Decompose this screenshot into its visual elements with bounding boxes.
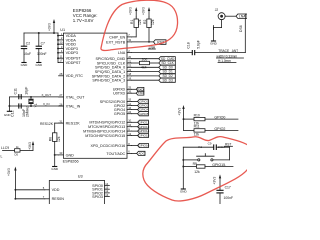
wire RXD — [132, 88, 137, 90]
svg-text:10uF: 10uF — [23, 52, 31, 56]
svg-text:VDD_RTC: VDD_RTC — [66, 74, 84, 78]
wire VDD pin branch — [57, 35, 60, 37]
svg-text:C2: C2 — [26, 41, 30, 45]
wire SD_D1 — [132, 71, 159, 73]
node GPIO14 flag — [138, 129, 149, 133]
svg-text:GPIO14: GPIO14 — [138, 129, 149, 133]
wire GPIO13 — [132, 126, 138, 128]
wire GPIO16 — [132, 145, 138, 147]
resistor R10 12k — [194, 117, 205, 120]
svg-text:RES12K: RES12K — [66, 121, 81, 125]
svg-text:+3V3: +3V3 — [213, 177, 217, 185]
wire ADC — [132, 152, 137, 154]
svg-text:GPIO5: GPIO5 — [114, 112, 125, 116]
wire reset group left rail — [182, 147, 184, 189]
svg-text:GND: GND — [66, 153, 75, 157]
svg-text:GPIO15.: GPIO15. — [212, 163, 226, 167]
svg-text:21: 21 — [128, 59, 131, 63]
svg-text:33: 33 — [59, 151, 62, 155]
svg-text:X_IN: X_IN — [43, 102, 49, 106]
svg-text:MTMS/HSPICLK/GPIO14: MTMS/HSPICLK/GPIO14 — [83, 129, 125, 133]
wire SD_CMD — [132, 58, 159, 60]
svg-text:GND: GND — [51, 167, 59, 171]
pin 21 SPICLK/SD_CLK (right) — [127, 62, 132, 64]
svg-text:14: 14 — [128, 102, 131, 106]
svg-text:RES0N: RES0N — [52, 197, 65, 201]
svg-text:+3V3: +3V3 — [7, 168, 11, 176]
wire RES12K net — [55, 122, 59, 124]
wire X_IN — [9, 105, 63, 107]
svg-text:R6: R6 — [48, 137, 52, 141]
svg-text:4k4: 4k4 — [141, 66, 147, 70]
svg-text:LLC9: LLC9 — [1, 146, 9, 150]
capacitor C12 10pF — [18, 103, 20, 108]
pin 14 SPIO0 U3 right — [105, 185, 110, 187]
pin 3 VDDP3 (left) — [59, 48, 64, 50]
wire EXT_RSTB to RST flag — [132, 41, 154, 43]
svg-text:12: 12 — [128, 123, 131, 127]
svg-text:GND: GND — [21, 63, 29, 67]
svg-text:EXT_RSTB: EXT_RSTB — [106, 40, 126, 44]
pin 26 U0TXD (right) — [127, 92, 132, 94]
pin 7 RES0N U3 left — [45, 198, 50, 200]
svg-text:C9: C9 — [208, 142, 212, 146]
capacitor C9 100nF reset — [183, 146, 213, 148]
resistor R1 12k pull-up — [135, 17, 137, 19]
pin 32 EXT_RSTB (right) — [127, 41, 132, 43]
svg-text:31: 31 — [59, 119, 62, 123]
pin 15 SPICS2/GPIO0 (right) — [127, 100, 132, 102]
svg-text:R9: R9 — [193, 162, 197, 166]
svg-text:18: 18 — [128, 72, 131, 76]
node GPIO2 flag — [138, 103, 149, 107]
wire GPIO15 — [132, 135, 138, 137]
svg-text:5.6pF: 5.6pF — [196, 40, 200, 49]
wire SD_D2 — [132, 75, 159, 77]
pin 14 GPIO2 (right) — [127, 105, 132, 107]
wire GPIO12 — [132, 121, 138, 123]
wire GPIO2 — [132, 105, 138, 107]
svg-text:1.7V~3.6V: 1.7V~3.6V — [73, 18, 94, 23]
node GPIO16 flag — [138, 143, 149, 147]
svg-text:15: 15 — [128, 98, 131, 102]
ground below C7 — [36, 62, 41, 64]
svg-text:12k: 12k — [151, 19, 155, 25]
wire LLC9 — [3, 149, 15, 151]
svg-text:GPIO15: GPIO15 — [138, 134, 149, 138]
svg-text:32: 32 — [128, 38, 131, 42]
svg-text:R2: R2 — [143, 20, 147, 24]
power +3V3 arrow above C17 — [219, 177, 221, 191]
svg-text:D5: D5 — [15, 152, 19, 156]
wire X_OUT — [9, 96, 63, 98]
svg-text:+3V3: +3V3 — [28, 142, 32, 150]
wire TXD — [132, 92, 137, 94]
power +3V3 arrow U3 — [14, 169, 16, 190]
svg-text:13: 13 — [128, 132, 131, 136]
svg-text:VDDP3: VDDP3 — [66, 51, 78, 55]
pin 24 GPIO5 (right) — [127, 113, 132, 115]
svg-text:TRACE _ANT: TRACE _ANT — [218, 49, 238, 53]
svg-text:22: 22 — [128, 64, 131, 68]
wire CHIP_EN to pull-up — [132, 36, 137, 38]
wire antenna riser — [244, 18, 246, 53]
svg-text:GND: GND — [35, 63, 43, 67]
power +3V3 arrow above R2 — [148, 9, 150, 17]
pin 12 SPIO2 U3 right — [105, 192, 110, 194]
svg-text:TXD: TXD — [138, 91, 145, 95]
node SD_D2 flag — [159, 74, 176, 78]
svg-text:GND: GND — [180, 189, 188, 193]
wire R9 row — [183, 166, 196, 168]
svg-text:+3V3: +3V3 — [47, 23, 51, 31]
svg-text:SPIO3: SPIO3 — [92, 195, 103, 199]
svg-text:C17: C17 — [225, 186, 231, 190]
svg-text:RES12K: RES12K — [40, 122, 54, 126]
wire U3 VDD — [15, 189, 44, 191]
pin 30 VDDD (left) — [59, 43, 64, 45]
svg-text:19: 19 — [128, 77, 131, 81]
svg-text:SD_D3: SD_D3 — [162, 78, 173, 82]
pin 26 XTAL_IN (left) — [59, 105, 64, 107]
svg-text:+3V3: +3V3 — [141, 7, 145, 15]
node GPIO15 flag — [138, 133, 149, 137]
pin 17 VDDPST (left) — [59, 61, 64, 63]
node SD_D0 flag — [159, 65, 176, 69]
wire GPIO5 — [132, 113, 138, 115]
svg-text:12k: 12k — [194, 133, 200, 137]
wire gnd rail left of crystal — [8, 97, 10, 111]
svg-text:U0TXD: U0TXD — [113, 92, 125, 96]
node RST flag — [154, 40, 167, 45]
svg-text:C7: C7 — [41, 41, 45, 45]
node SD_D1 flag — [159, 70, 176, 74]
wire GPIO4 — [132, 109, 138, 111]
pin 6 TOUT/ADC (right) — [127, 152, 132, 154]
wire TRACE_ANT — [195, 52, 246, 54]
ground below R6 — [52, 166, 57, 168]
diode D5 1k — [15, 149, 20, 152]
svg-text:25: 25 — [128, 86, 131, 90]
svg-text:12k: 12k — [57, 136, 61, 142]
node GPIO4 flag — [138, 108, 149, 112]
pin 4 VDDP3 (left) — [59, 52, 64, 54]
pin 13 MTDO/HSPICS/GPIO15 (right) — [127, 135, 132, 137]
svg-text:Y1: Y1 — [34, 103, 38, 107]
svg-text:U3: U3 — [78, 175, 83, 179]
wire +3V3 rail top-left — [24, 32, 58, 34]
svg-text:R10: R10 — [194, 113, 200, 117]
switch K1 reset button — [183, 159, 197, 161]
node GPIO0 flag — [138, 99, 149, 103]
node SD_CMD flag — [159, 57, 176, 61]
pin 8 XPD_DCDC/GPIO16 (right) — [127, 145, 132, 147]
ground reset group — [181, 188, 186, 190]
wire R11 row — [183, 119, 185, 130]
svg-text:13: 13 — [105, 193, 108, 197]
svg-text:GPIO13: GPIO13 — [138, 125, 149, 129]
pin 15 SPIO1 U3 right — [105, 188, 110, 190]
svg-text:C18: C18 — [187, 42, 191, 48]
wire GPIO0 — [132, 100, 138, 102]
op-amp U1 ESP8266 IC body — [63, 33, 127, 158]
wire GND pin 33 — [55, 154, 59, 156]
ground below C2 — [21, 62, 26, 64]
pin 12 MTCK/HSPID/GPIO13 (right) — [127, 126, 132, 128]
svg-text:XPD_DCDC/GPIO16: XPD_DCDC/GPIO16 — [91, 144, 126, 148]
svg-text:L: L — [1, 155, 3, 159]
crystal Y1 26MHz — [30, 97, 32, 99]
svg-text:200: 200 — [142, 58, 148, 62]
svg-text:14: 14 — [105, 182, 108, 186]
svg-text:+3V3: +3V3 — [129, 7, 133, 15]
svg-text:GPIO5: GPIO5 — [139, 112, 149, 116]
wire VDD pin branch — [57, 52, 60, 54]
pin 1 VDDA (left) — [59, 35, 64, 37]
pin 11 VDDPST (left) — [59, 57, 64, 59]
svg-text:MTDO/HSPICS/GPIO15: MTDO/HSPICS/GPIO15 — [85, 134, 125, 138]
svg-text:30: 30 — [59, 41, 62, 45]
node LNA flag — [236, 14, 247, 18]
svg-text:GPIO2: GPIO2 — [214, 127, 225, 131]
svg-text:15: 15 — [105, 186, 108, 190]
svg-text:ESP8266: ESP8266 — [63, 159, 79, 163]
svg-text:MTCK/HSPID/GPIO13: MTCK/HSPID/GPIO13 — [88, 125, 125, 129]
power +3V3 arrow R10/R11 — [183, 108, 185, 119]
svg-text:GPIO0: GPIO0 — [214, 116, 225, 120]
wire VDD pin branch — [57, 48, 60, 50]
wire LNA to antenna — [132, 52, 193, 54]
ground crystal — [7, 110, 12, 112]
svg-text:20: 20 — [128, 55, 131, 59]
wire red annotation bottom loop — [143, 137, 256, 201]
wire R10 row — [184, 118, 195, 120]
pin 19 SPIHD/SD_DATA_3 (right) — [127, 79, 132, 81]
svg-text:12k: 12k — [194, 170, 200, 174]
pin 10 MTDI/HSPIQ/GPIO12 (right) — [127, 121, 132, 123]
power +3V3 arrow top-left — [53, 21, 55, 33]
pin 28 VDD_RTC (left) — [59, 75, 64, 77]
svg-text:+3V3: +3V3 — [178, 108, 182, 116]
node GPIO12 flag — [138, 120, 149, 124]
wire red annotation top loop — [101, 0, 178, 50]
pin 20 SPICS0/SD_CMD (right) — [127, 58, 132, 60]
capacitor C18 5.6pF series — [191, 50, 193, 55]
resistor R12 200 series on SD_CLK — [139, 61, 149, 64]
resistor R6 12k (RES12K pulldown) — [53, 133, 57, 142]
node junction C7 on rail — [38, 32, 40, 34]
svg-text:24: 24 — [128, 110, 131, 114]
svg-text:17: 17 — [59, 59, 62, 63]
pin 9 MTMS/HSPICLK/GPIO14 (right) — [127, 130, 132, 132]
svg-text:XTAL_OUT: XTAL_OUT — [66, 95, 86, 99]
wire J2 shield to ground — [221, 20, 223, 28]
pin 2 VDDA (left) — [59, 39, 64, 41]
pin 13 SPIO3 U3 right — [105, 196, 110, 198]
svg-text:23: 23 — [128, 68, 131, 72]
svg-text:R1: R1 — [130, 20, 134, 24]
svg-text:GPIO12: GPIO12 — [138, 120, 149, 124]
resistor R9 12k GPIO15 pulldown — [197, 165, 206, 168]
svg-text:12k: 12k — [138, 19, 142, 25]
wire GPIO14 — [132, 130, 138, 132]
wire SD_D0 — [132, 66, 159, 68]
svg-text:16: 16 — [128, 106, 131, 110]
wire U3 RES0N — [14, 190, 16, 199]
svg-text:LNA: LNA — [118, 51, 126, 55]
svg-text:TOUT/ADC: TOUT/ADC — [106, 152, 125, 156]
svg-text:10: 10 — [128, 119, 131, 123]
pin 7 CHIP_EN (right) — [127, 36, 132, 38]
pin 5 VDD U3 left — [45, 189, 50, 191]
pin 23 SPIQ/SD_DATA_1 (right) — [127, 71, 132, 73]
power +3V3 arrow above R1 — [135, 9, 137, 17]
svg-text:GND: GND — [210, 41, 218, 45]
ground J2 — [211, 40, 216, 42]
svg-text:C11: C11 — [14, 88, 18, 94]
pin 31 RES12K (left) — [59, 122, 64, 124]
node ADC flag — [137, 151, 145, 155]
svg-text:U1: U1 — [60, 28, 65, 32]
svg-text:R11: R11 — [194, 125, 200, 129]
wire RST down to button — [228, 147, 230, 160]
svg-text:J2: J2 — [215, 8, 219, 12]
node RXD flag — [136, 87, 144, 91]
svg-text:SPIHD/SD_DATA_3: SPIHD/SD_DATA_3 — [92, 79, 125, 83]
svg-text:28: 28 — [59, 72, 62, 76]
svg-text:VDDPST: VDDPST — [66, 61, 82, 65]
svg-text:26: 26 — [128, 90, 131, 94]
svg-text:26MHz: 26MHz — [26, 106, 30, 117]
node junction GND wire — [54, 154, 56, 156]
node GPIO13 flag — [138, 125, 149, 129]
pin 33 GND (left) — [59, 154, 64, 156]
node SD_CLK flag — [159, 61, 176, 65]
node SD_D3 flag — [159, 78, 176, 82]
pin 22 SPID/SD_DATA_0 (right) — [127, 66, 132, 68]
svg-text:10pF: 10pF — [25, 86, 29, 95]
svg-text:11: 11 — [60, 55, 63, 59]
svg-text:VDD: VDD — [52, 188, 60, 192]
svg-text:GPIO16: GPIO16 — [138, 144, 149, 148]
pin 27 XTAL_OUT (left) — [59, 96, 64, 98]
resistor R11 12k — [194, 129, 205, 132]
wire VDD pin branch — [57, 57, 60, 59]
pin 16 GPIO4 (right) — [127, 109, 132, 111]
pin 25 U0RXD (right) — [127, 88, 132, 90]
svg-text:MTDI/HSPIQ/GPIO12: MTDI/HSPIQ/GPIO12 — [89, 121, 125, 125]
pin 18 SPIWP/SD_DATA_2 (right) — [127, 75, 132, 77]
svg-text:C12: C12 — [10, 110, 14, 117]
op-amp U3 flash IC — [49, 181, 104, 207]
svg-text:CHIP_EN: CHIP_EN — [109, 35, 125, 39]
capacitor C7 100nF — [38, 33, 40, 46]
capacitor C17 100nF — [216, 189, 223, 191]
svg-text:DS6: DS6 — [239, 25, 243, 32]
svg-text:100nF: 100nF — [37, 52, 47, 56]
svg-text:K1: K1 — [198, 145, 202, 149]
pin 2 LNA (right) — [127, 52, 132, 54]
svg-text:ADC: ADC — [138, 152, 145, 156]
wire SD_D3 — [132, 79, 159, 81]
capacitor C2 10uF — [23, 33, 25, 46]
node TXD flag — [136, 91, 144, 95]
resistor R2 12k pull-up — [148, 17, 150, 19]
svg-text:XTAL_IN: XTAL_IN — [66, 104, 81, 108]
wire VDD pin branch — [57, 43, 60, 45]
wire VDD pin branch — [57, 39, 60, 41]
power +3V3 arrow LLC9 — [32, 143, 34, 150]
wire SD_CLK — [132, 62, 140, 64]
svg-text:12: 12 — [105, 189, 108, 193]
wire VDD pin branch — [57, 61, 60, 63]
capacitor C11 10pF — [18, 94, 20, 99]
svg-text:100nF: 100nF — [224, 196, 234, 200]
node GPIO5 flag — [138, 112, 149, 116]
svg-text:X_OUT: X_OUT — [42, 93, 52, 97]
